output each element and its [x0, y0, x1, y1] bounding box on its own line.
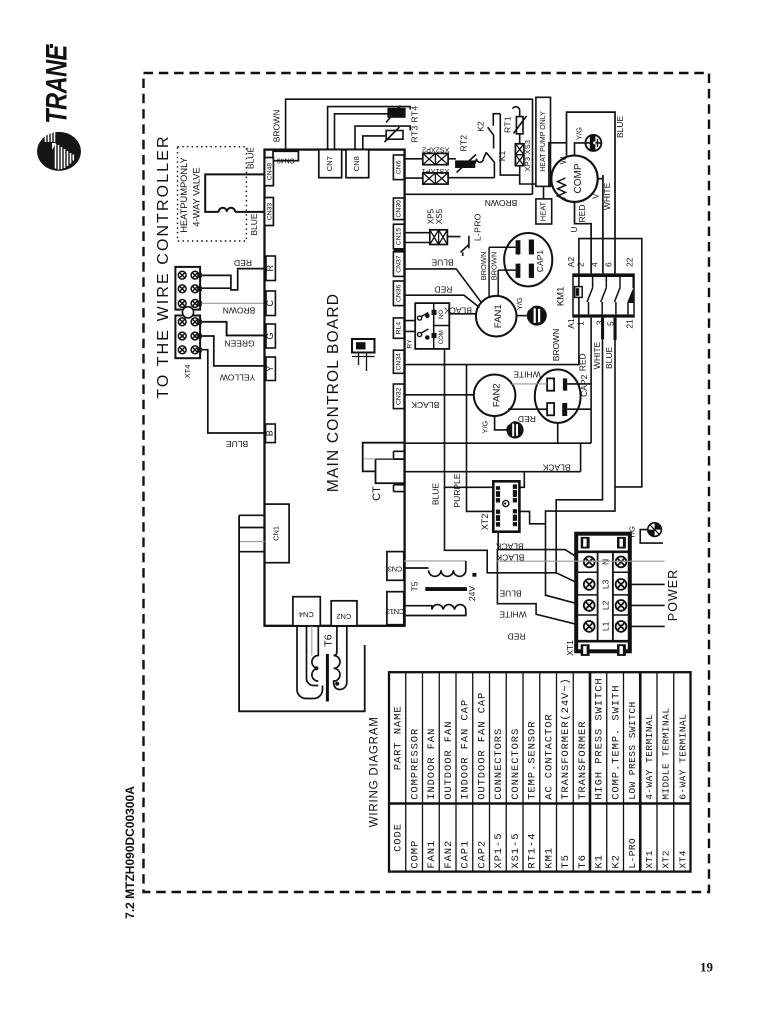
svg-text:CT: CT — [371, 486, 383, 501]
svg-text:BROWN: BROWN — [551, 329, 561, 362]
T6 core — [326, 654, 329, 702]
connector CN7 — [319, 150, 342, 178]
capacitor CAP1 — [504, 233, 552, 286]
connector XS2XP2 — [423, 153, 448, 164]
svg-text:CN1: CN1 — [272, 526, 281, 541]
wire GREEN to G — [202, 322, 266, 336]
terminal XT2 — [493, 481, 519, 531]
wire WHITE FAN2 to CAP2 — [512, 383, 547, 385]
valve coil wire — [205, 174, 264, 212]
svg-text:CAP1: CAP1 — [460, 840, 472, 869]
connector CN30 — [393, 198, 404, 220]
thermistor RT3 — [385, 127, 404, 142]
svg-text:N: N — [601, 559, 611, 565]
svg-text:PART NAME: PART NAME — [393, 705, 405, 770]
svg-text:1: 1 — [576, 321, 586, 326]
wire RED FAN2 to CAP2 — [508, 408, 547, 410]
contactor KM1 frame wire A2-22 — [405, 239, 642, 487]
svg-text:KM1: KM1 — [556, 287, 567, 307]
low pressure switch L-PRO — [447, 236, 469, 256]
svg-text:COMP.TEMP. SWITH: COMP.TEMP. SWITH — [610, 685, 622, 800]
svg-text:Y/G: Y/G — [628, 526, 637, 539]
connector CN2 — [331, 601, 357, 626]
svg-text:Y/G: Y/G — [481, 420, 490, 433]
T5 secondary — [404, 606, 466, 616]
box HEAT — [536, 199, 552, 224]
wire BROWN from board top to right — [286, 99, 533, 194]
connector CN34 — [393, 350, 404, 373]
svg-text:Y/G: Y/G — [575, 127, 584, 140]
svg-text:TRANSFORMER(24V~): TRANSFORMER(24V~) — [560, 677, 572, 799]
CT bus lower — [404, 443, 580, 472]
svg-text:L1: L1 — [601, 621, 611, 631]
svg-text:FAN2: FAN2 — [443, 840, 455, 869]
svg-text:CN2: CN2 — [336, 612, 351, 621]
wire XT2 top-right to CT bus — [517, 472, 525, 488]
svg-text:L2: L2 — [601, 600, 611, 610]
connector CN1 — [265, 504, 289, 563]
svg-text:Y: Y — [265, 366, 275, 372]
svg-text:WHITE: WHITE — [592, 341, 602, 369]
ground at FAN2 — [495, 416, 507, 430]
thermistor RT2 — [448, 158, 456, 160]
svg-text:XS2XP2: XS2XP2 — [422, 146, 450, 155]
svg-text:XT2: XT2 — [661, 850, 672, 868]
svg-text:PURPLE: PURPLE — [452, 473, 462, 507]
corner tabs — [581, 537, 626, 656]
switch K1 — [486, 152, 494, 178]
svg-text:RED: RED — [508, 632, 526, 642]
svg-text:A1: A1 — [566, 318, 576, 329]
svg-text:BLUE: BLUE — [604, 346, 614, 369]
wire CN8 pin2 to RT3 left — [363, 136, 386, 150]
svg-text:CAP2: CAP2 — [476, 840, 488, 869]
svg-text:RED: RED — [434, 285, 452, 295]
svg-text:BLUE: BLUE — [431, 257, 454, 267]
svg-text:CN6: CN6 — [396, 160, 403, 174]
connector CN15 — [393, 224, 404, 249]
connector XS1XP1 — [423, 173, 448, 184]
KM1 body side lines — [573, 273, 634, 317]
svg-text:CN37: CN37 — [396, 255, 403, 273]
svg-text:CN8: CN8 — [352, 156, 361, 171]
thick wire stubs below 3 and 5 — [601, 318, 604, 340]
fan FAN1 — [476, 296, 517, 337]
wires CN6 to connectors — [404, 159, 423, 178]
24V polarity bar — [472, 573, 476, 577]
svg-text:24V: 24V — [467, 586, 477, 601]
svg-text:TO THE WIRE CONTROLLER: TO THE WIRE CONTROLLER — [155, 134, 172, 398]
svg-text:BLUE: BLUE — [226, 439, 249, 449]
svg-text:CN34: CN34 — [396, 353, 403, 371]
svg-text:CN30: CN30 — [396, 200, 403, 218]
svg-text:RT3 RT4: RT3 RT4 — [410, 106, 420, 143]
terminal block XT1 — [576, 534, 630, 652]
connector XP5 XS5 — [430, 230, 448, 245]
wire main vertical K-chain — [500, 114, 519, 175]
wire YELLOW to Y — [202, 336, 266, 366]
relay contacts — [418, 313, 429, 337]
svg-text:21: 21 — [625, 319, 635, 329]
compressor COMP circle — [551, 156, 597, 202]
svg-text:XT1: XT1 — [565, 640, 575, 656]
svg-text:HEAT: HEAT — [539, 201, 548, 221]
svg-text:COMP: COMP — [573, 163, 584, 193]
coil — [575, 287, 583, 298]
coil bumps — [219, 208, 235, 212]
screw circles XT4 — [178, 271, 199, 353]
wire WHITE KM1-3 down to XT1 L3 — [556, 339, 602, 573]
svg-text:CN48: CN48 — [266, 163, 273, 181]
wire XT2 bottom-right to XT1 L2 — [517, 511, 546, 523]
ground Y/G near XT1 — [640, 530, 663, 544]
connector CN8 — [346, 150, 369, 178]
TRANE circle emblem — [37, 132, 81, 171]
relay RL4 — [415, 303, 449, 349]
svg-text:6-WAY TERMINAL: 6-WAY TERMINAL — [677, 714, 688, 800]
svg-text:A2: A2 — [566, 257, 576, 268]
svg-text:K1: K1 — [497, 151, 507, 162]
thick band under tabs — [578, 550, 628, 553]
svg-text:CN4: CN4 — [299, 610, 314, 619]
svg-text:K2: K2 — [476, 121, 486, 132]
terminal block XT4 (upper half) — [175, 267, 200, 358]
box HEAT PUMP ONLY — [536, 97, 551, 186]
svg-text:TEMP.SENSOR: TEMP.SENSOR — [527, 721, 539, 800]
wire CAP2 bottom to CT bus — [557, 423, 559, 443]
connector CN36 — [393, 281, 404, 306]
wire CN8 pin1 to RT3 right — [355, 126, 410, 150]
registered mark — [50, 44, 53, 48]
svg-text:U: U — [570, 226, 579, 232]
svg-text:XS1XP1: XS1XP1 — [422, 167, 450, 176]
wire BLACK1 XT2 down to XT1 N — [498, 532, 584, 562]
wire RED KM1-1 down to CT bus — [590, 318, 592, 444]
T5 primary bumps — [429, 570, 466, 576]
svg-text:WIRING DIAGRAM: WIRING DIAGRAM — [369, 716, 381, 827]
transformer T6 wires from CN4 — [297, 626, 323, 699]
svg-text:XT4: XT4 — [183, 365, 192, 379]
CT bus upper — [404, 442, 591, 444]
contact 3 — [614, 277, 620, 314]
svg-text:COM: COM — [439, 330, 445, 344]
connector CN32 — [393, 384, 404, 409]
mounting hole between halves — [182, 307, 193, 318]
connector RL4 — [393, 318, 404, 338]
screws — [584, 557, 627, 632]
svg-text:CODE: CODE — [393, 823, 405, 852]
svg-text:BROWN: BROWN — [479, 252, 488, 281]
svg-text:CN15: CN15 — [396, 228, 403, 246]
wire row2 stub — [202, 287, 232, 289]
wire RED CN36 to FAN1 — [405, 295, 480, 307]
svg-text:BLUE: BLUE — [431, 483, 441, 506]
contact 2 — [601, 277, 607, 314]
svg-text:BLUE: BLUE — [499, 589, 522, 599]
svg-text:CN36: CN36 — [396, 284, 403, 302]
main control board outline — [265, 150, 405, 626]
svg-text:LOW PRESS SWITCH: LOW PRESS SWITCH — [627, 701, 638, 799]
KM1 top bar — [573, 273, 634, 277]
ground at FAN1 — [517, 315, 527, 317]
svg-text:FAN1: FAN1 — [493, 304, 504, 328]
svg-text:7.2 MTZH090DC00300A: 7.2 MTZH090DC00300A — [123, 786, 137, 919]
wire BLACK2 down to XT1 L1 — [497, 550, 584, 627]
connector XP3 XS3 — [519, 134, 521, 144]
svg-text:L3: L3 — [601, 579, 611, 589]
svg-text:CAP1: CAP1 — [535, 250, 545, 272]
wire CN7 pin2 to RT4 left — [335, 114, 389, 150]
svg-text:MIDDLE TERMINAL: MIDDLE TERMINAL — [661, 708, 672, 800]
wire XS1XP1 to K1 — [448, 177, 494, 179]
connector CN48 — [265, 158, 274, 186]
wire BLUE W to right rail — [567, 112, 616, 273]
svg-text:BLACK: BLACK — [542, 462, 570, 472]
capacitor CAP2 — [535, 370, 581, 423]
svg-text:HEAT PUMP ONLY: HEAT PUMP ONLY — [540, 111, 547, 172]
svg-text:C: C — [265, 299, 275, 306]
terminal B — [266, 424, 276, 443]
wire BLUE to B — [202, 350, 266, 433]
thermistor RT4 — [386, 106, 405, 123]
inner verticals of label strip — [598, 552, 613, 641]
wire RED to R — [202, 269, 266, 290]
T6 secondary bumps — [312, 626, 318, 681]
connector CN49 — [273, 151, 298, 160]
wire to heater — [520, 166, 544, 199]
wire brown horizontal from CN30 — [405, 193, 533, 195]
svg-text:AC CONTACTOR: AC CONTACTOR — [543, 713, 555, 799]
svg-text:CN13: CN13 — [386, 607, 404, 616]
svg-text:G: G — [265, 332, 275, 339]
T6 wires from CN2 — [334, 626, 347, 690]
4-way valve dotted box — [178, 147, 247, 241]
svg-text:WHITE: WHITE — [499, 610, 527, 620]
wire U red — [575, 202, 592, 274]
svg-text:TRANE: TRANE — [40, 44, 73, 124]
svg-text:CN32: CN32 — [396, 387, 403, 405]
svg-text:XT4: XT4 — [677, 850, 688, 868]
svg-text:RY: RY — [407, 339, 414, 349]
fan FAN2 — [474, 375, 516, 417]
svg-text:WHITE: WHITE — [513, 370, 541, 380]
svg-text:K2: K2 — [610, 854, 622, 868]
svg-text:RED: RED — [234, 258, 252, 268]
svg-text:BROWN: BROWN — [272, 110, 282, 143]
svg-text:BLACK: BLACK — [411, 400, 439, 410]
svg-text:RT1-4: RT1-4 — [527, 833, 539, 869]
wire BLUE CN37 to FAN1 — [405, 269, 481, 302]
connector CN13 — [387, 592, 404, 625]
wire continues down then to XT1 L3 chain — [445, 487, 585, 583]
terminal R — [266, 256, 275, 281]
wire V white — [598, 175, 603, 273]
wire CN7 pin1 to RT4 right — [328, 107, 411, 150]
ground Y/G at comp — [575, 143, 586, 155]
wire BLACK CN32 to FAN2 — [405, 394, 474, 396]
svg-text:CN33: CN33 — [266, 203, 273, 221]
svg-text:CONNECTORS: CONNECTORS — [493, 728, 505, 800]
svg-text:GREEN: GREEN — [224, 339, 254, 349]
terminal G — [266, 324, 275, 348]
CT assembly — [363, 443, 405, 472]
svg-text:R: R — [265, 264, 275, 271]
pin nubs — [197, 273, 202, 353]
svg-text:COMPRESSOR: COMPRESSOR — [409, 728, 421, 800]
svg-text:NO: NO — [439, 310, 445, 319]
wire PURPLE — [467, 365, 497, 512]
svg-text:2: 2 — [576, 262, 586, 267]
cell divider lines — [578, 572, 628, 615]
CAP2 right leads — [567, 384, 591, 409]
connector CN6 — [393, 155, 404, 180]
svg-text:V: V — [592, 193, 601, 199]
transformer T5 primary lead top — [404, 560, 466, 562]
svg-text:YELLOW: YELLOW — [220, 373, 255, 383]
svg-text:OUTDOOR FAN CAP: OUTDOOR FAN CAP — [476, 692, 488, 800]
svg-text:RT2: RT2 — [459, 134, 469, 151]
svg-text:RL4: RL4 — [396, 322, 403, 335]
svg-text:T5: T5 — [560, 854, 572, 868]
svg-text:KM1: KM1 — [543, 847, 555, 869]
thermistor RT1 with hook — [513, 107, 520, 117]
T6 primary bumps — [334, 656, 340, 690]
svg-text:BLUE: BLUE — [249, 213, 259, 236]
svg-text:BROWN: BROWN — [223, 306, 256, 316]
svg-text:RED: RED — [577, 205, 587, 223]
svg-text:RED: RED — [578, 353, 588, 371]
dashed page frame — [144, 73, 710, 892]
winding zigzag — [558, 178, 566, 199]
svg-text:WHITE: WHITE — [602, 182, 612, 210]
svg-text:TRANSFORMER: TRANSFORMER — [577, 721, 589, 800]
wires BROWN to CAP1 — [489, 247, 515, 270]
svg-text:HIGH PRESS SWITCH: HIGH PRESS SWITCH — [594, 677, 606, 799]
thin grey feeder through N row — [497, 560, 665, 562]
black mark above CN37 — [393, 248, 404, 251]
svg-text:MAIN CONTROL BOARD: MAIN CONTROL BOARD — [325, 293, 342, 492]
svg-text:INDOOR FAN: INDOOR FAN — [426, 728, 438, 800]
svg-text:L-PRO: L-PRO — [627, 838, 638, 869]
svg-text:22: 22 — [625, 257, 635, 267]
wire BLUE (RL4 COM) down to XT2 — [445, 349, 497, 487]
contact aux 21/22 — [628, 277, 633, 314]
svg-text:B: B — [265, 430, 275, 436]
svg-text:T6: T6 — [577, 854, 589, 868]
svg-text:BLACK: BLACK — [444, 305, 472, 315]
svg-text:XP1-5: XP1-5 — [493, 833, 505, 869]
svg-text:OUTDOOR FAN: OUTDOOR FAN — [443, 721, 455, 800]
svg-text:19: 19 — [700, 960, 714, 975]
svg-text:CN3: CN3 — [388, 565, 402, 574]
switch K2 — [488, 114, 501, 149]
svg-text:T6: T6 — [323, 634, 335, 646]
svg-text:Y/G: Y/G — [515, 297, 524, 310]
svg-text:BROWN: BROWN — [490, 252, 499, 281]
small on-board component with pins — [352, 339, 375, 353]
svg-text:RT1: RT1 — [503, 116, 513, 133]
svg-text:BLUE: BLUE — [246, 147, 256, 170]
svg-text:L-PRO: L-PRO — [472, 213, 482, 241]
wire BROWN to C — [202, 302, 266, 304]
terminal Y — [266, 357, 275, 381]
svg-text:HEATPUMPONLY: HEATPUMPONLY — [179, 157, 189, 233]
svg-text:POWER: POWER — [666, 569, 680, 621]
wire W jumper through heat gap — [549, 143, 567, 187]
terminal C — [266, 291, 275, 316]
svg-text:XT2: XT2 — [480, 514, 490, 531]
svg-text:W: W — [559, 156, 568, 164]
T5 core — [425, 587, 467, 591]
connector CN37 — [393, 252, 404, 277]
KM1 bottom bar — [573, 314, 634, 317]
svg-text:K1: K1 — [594, 854, 606, 868]
svg-text:FAN1: FAN1 — [426, 840, 438, 869]
svg-text:XT1: XT1 — [644, 850, 655, 868]
svg-text:XS1-5: XS1-5 — [510, 833, 522, 869]
wires CN15 to XP5/XS5 — [404, 233, 430, 243]
svg-text:CONNECTORS: CONNECTORS — [510, 728, 522, 800]
svg-text:FAN2: FAN2 — [492, 383, 503, 407]
RT2 hook to K1 blade — [475, 153, 487, 165]
connector CN4 — [293, 597, 320, 626]
svg-text:INDOOR FAN CAP: INDOOR FAN CAP — [460, 699, 472, 800]
svg-text:XP3 XS3: XP3 XS3 — [523, 140, 532, 172]
svg-text:CN49: CN49 — [277, 157, 295, 164]
CN1 stub wires and T6 enclosure bus — [239, 515, 264, 551]
svg-text:4: 4 — [590, 262, 600, 267]
svg-text:6: 6 — [604, 262, 614, 267]
connector CN3 — [387, 552, 404, 581]
svg-text:XS5: XS5 — [435, 208, 444, 224]
svg-text:BROWN: BROWN — [485, 198, 518, 208]
contact 1 — [587, 277, 593, 314]
svg-text:COMP: COMP — [409, 840, 421, 869]
svg-text:CN7: CN7 — [325, 156, 334, 171]
svg-text:T5: T5 — [410, 581, 420, 591]
svg-text:4-WAY VALVE: 4-WAY VALVE — [192, 167, 202, 226]
wire BLUE KM1-5 down to XT1 L2 — [546, 340, 616, 606]
svg-text:BLACK: BLACK — [495, 542, 523, 552]
svg-text:CAP2: CAP2 — [579, 374, 589, 396]
svg-text:BLUE: BLUE — [615, 115, 625, 138]
svg-text:4-WAY TERMINAL: 4-WAY TERMINAL — [644, 714, 655, 800]
wires board to RL4 — [405, 321, 416, 332]
svg-text:RED: RED — [518, 414, 536, 424]
connector CN33 — [265, 198, 274, 226]
wire BLACK RL4 to FAN1 — [449, 313, 476, 315]
